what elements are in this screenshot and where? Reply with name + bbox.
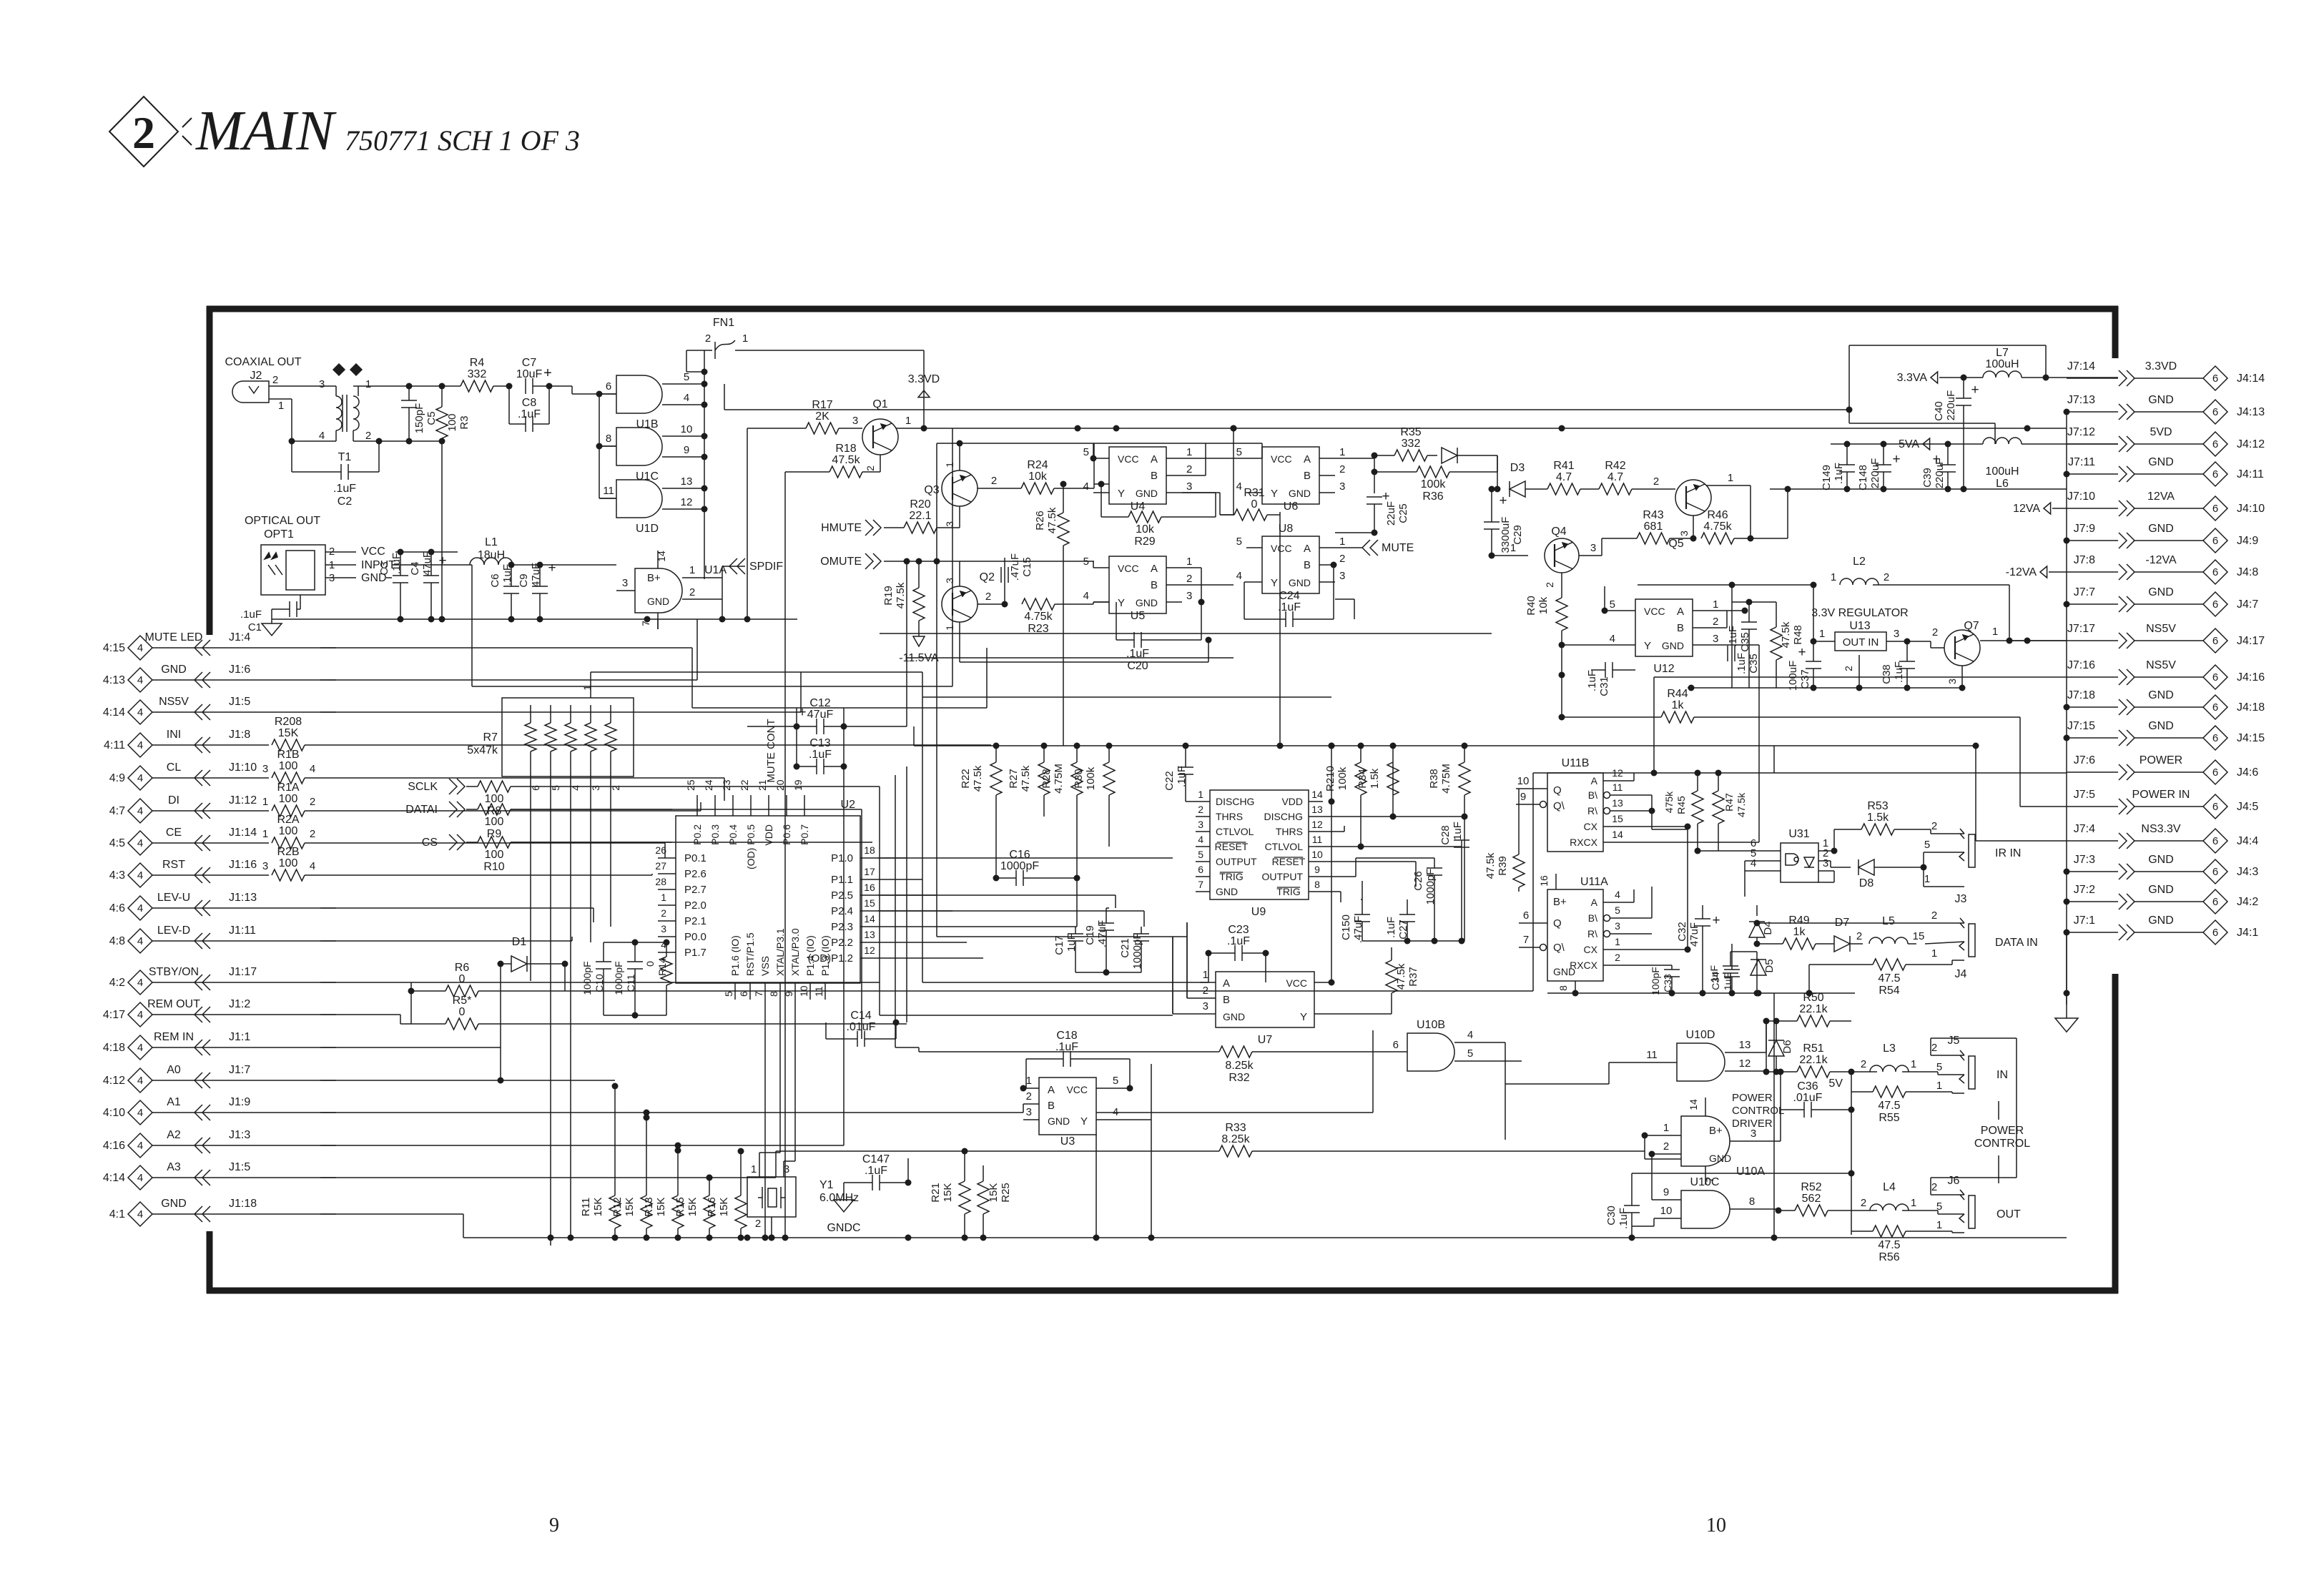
svg-text:R21: R21 [930, 1183, 942, 1203]
svg-text:U8: U8 [1279, 523, 1294, 535]
svg-text:22.1k: 22.1k [1799, 1003, 1828, 1015]
svg-text:2: 2 [985, 591, 991, 603]
svg-text:16: 16 [864, 882, 875, 893]
svg-text:J6: J6 [1948, 1175, 1960, 1187]
svg-text:3: 3 [1590, 542, 1596, 554]
svg-text:GND: GND [1662, 640, 1684, 651]
svg-text:9: 9 [1520, 791, 1526, 803]
svg-text:4: 4 [137, 935, 143, 947]
svg-text:U11B: U11B [1562, 757, 1590, 769]
svg-text:R16: R16 [706, 1197, 718, 1217]
svg-text:7: 7 [1523, 934, 1529, 946]
svg-text:C147: C147 [862, 1153, 890, 1165]
svg-text:2: 2 [1931, 820, 1937, 832]
svg-text:POWER: POWER [1981, 1125, 2024, 1137]
svg-text:5V: 5V [1828, 1078, 1843, 1090]
svg-text:2: 2 [1615, 952, 1620, 963]
svg-text:R45: R45 [1675, 796, 1687, 814]
svg-text:J3: J3 [1955, 893, 1967, 905]
svg-text:10: 10 [1311, 849, 1323, 860]
svg-text:J7:10: J7:10 [2067, 490, 2095, 503]
svg-text:C10: C10 [594, 974, 605, 992]
svg-text:13: 13 [1311, 804, 1323, 815]
svg-text:IR IN: IR IN [1995, 847, 2021, 859]
svg-text:2: 2 [1186, 463, 1192, 475]
svg-text:+: + [1798, 645, 1806, 660]
svg-text:14: 14 [1612, 829, 1623, 840]
svg-text:R7: R7 [483, 731, 498, 744]
svg-text:15K: 15K [278, 727, 299, 739]
svg-text:R10: R10 [483, 861, 504, 873]
svg-text:6: 6 [738, 991, 749, 997]
svg-text:VCC: VCC [1286, 977, 1307, 989]
svg-text:U13: U13 [1849, 620, 1870, 632]
svg-text:J7:4: J7:4 [2074, 823, 2095, 835]
svg-text:2: 2 [610, 785, 621, 791]
svg-text:Q7: Q7 [1964, 620, 1979, 632]
svg-text:1: 1 [1713, 598, 1718, 611]
svg-text:6: 6 [2212, 835, 2218, 847]
svg-text:J1:4: J1:4 [229, 631, 250, 643]
svg-text:J1:18: J1:18 [229, 1198, 257, 1210]
svg-text:C33: C33 [1662, 974, 1673, 992]
svg-text:1: 1 [1510, 542, 1516, 554]
svg-text:.1uF: .1uF [1833, 463, 1845, 484]
svg-text:5: 5 [1236, 536, 1242, 548]
svg-text:THRS: THRS [1216, 811, 1243, 822]
svg-text:R24: R24 [1027, 459, 1048, 471]
svg-text:100k: 100k [1421, 478, 1447, 490]
svg-text:J4:1: J4:1 [2237, 927, 2258, 939]
svg-text:2: 2 [1861, 1197, 1866, 1209]
svg-text:GND: GND [2148, 884, 2174, 896]
svg-text:SPDIF: SPDIF [749, 561, 783, 573]
svg-text:5: 5 [1610, 598, 1615, 611]
svg-text:18: 18 [864, 844, 875, 856]
svg-text:J7:8: J7:8 [2074, 554, 2095, 566]
svg-text:CTLVOL: CTLVOL [1265, 841, 1304, 852]
svg-text:9: 9 [684, 444, 689, 456]
svg-text:J4:16: J4:16 [2237, 671, 2265, 684]
svg-text:2: 2 [1663, 1140, 1669, 1153]
svg-text:R\: R\ [1587, 928, 1597, 940]
svg-text:2: 2 [272, 374, 278, 386]
svg-text:14: 14 [1311, 789, 1323, 800]
svg-text:+: + [1712, 913, 1720, 928]
svg-text:U6: U6 [1284, 500, 1299, 513]
svg-text:100: 100 [485, 849, 504, 861]
svg-text:6.0MHz: 6.0MHz [819, 1192, 859, 1204]
svg-text:6: 6 [2212, 598, 2218, 611]
svg-text:VCC: VCC [1066, 1084, 1088, 1095]
svg-text:B+: B+ [647, 572, 661, 584]
svg-text:4: 4 [319, 430, 325, 442]
svg-text:5: 5 [684, 371, 689, 383]
svg-text:C35: C35 [1739, 632, 1751, 652]
svg-text:1: 1 [944, 462, 955, 468]
svg-text:47uF: 47uF [1688, 922, 1700, 947]
svg-text:VCC: VCC [1271, 543, 1292, 554]
svg-text:1: 1 [751, 1163, 757, 1175]
svg-text:47.5k: 47.5k [895, 582, 907, 608]
svg-text:+: + [1892, 452, 1900, 467]
svg-text:24: 24 [703, 779, 714, 791]
svg-text:J4:8: J4:8 [2237, 566, 2258, 578]
svg-text:12: 12 [1739, 1057, 1751, 1070]
svg-text:D1: D1 [512, 936, 527, 948]
svg-text:GND: GND [1136, 488, 1158, 499]
svg-text:1: 1 [1992, 626, 1998, 638]
svg-text:4.7: 4.7 [1556, 471, 1572, 483]
svg-text:5: 5 [1467, 1047, 1473, 1060]
svg-text:J7:17: J7:17 [2067, 623, 2095, 635]
svg-text:C14: C14 [850, 1010, 871, 1022]
svg-text:-12VA: -12VA [2006, 566, 2037, 578]
svg-text:C27: C27 [1397, 919, 1409, 940]
svg-text:6: 6 [1523, 909, 1529, 922]
svg-text:R56: R56 [1879, 1251, 1899, 1263]
svg-text:1000pF: 1000pF [1424, 869, 1437, 905]
svg-text:R30: R30 [1073, 769, 1085, 789]
svg-text:4: 4 [137, 902, 143, 914]
svg-text:VCC: VCC [1118, 453, 1139, 465]
svg-text:U7: U7 [1258, 1034, 1273, 1046]
svg-text:Y: Y [1644, 640, 1651, 652]
svg-text:NS3.3V: NS3.3V [2141, 823, 2180, 835]
svg-text:11: 11 [1646, 1049, 1658, 1061]
svg-text:VSS: VSS [759, 956, 771, 976]
svg-text:1: 1 [1831, 571, 1836, 583]
svg-text:J7:6: J7:6 [2074, 754, 2095, 766]
svg-text:47.5k: 47.5k [1484, 852, 1497, 879]
svg-text:3: 3 [1198, 819, 1203, 830]
svg-text:GND: GND [1216, 886, 1238, 897]
svg-text:2: 2 [1186, 573, 1192, 585]
svg-text:J1:8: J1:8 [229, 729, 250, 741]
svg-text:C16: C16 [1009, 849, 1030, 861]
svg-text:2: 2 [1026, 1090, 1032, 1103]
svg-text:6: 6 [2212, 671, 2218, 684]
svg-text:6: 6 [1393, 1039, 1399, 1051]
svg-text:6: 6 [2212, 535, 2218, 547]
svg-text:6: 6 [2212, 373, 2218, 385]
svg-text:4:5: 4:5 [109, 837, 125, 849]
svg-text:2: 2 [1339, 553, 1345, 565]
svg-text:3.3VD: 3.3VD [2145, 360, 2177, 373]
svg-text:6: 6 [2212, 406, 2218, 418]
svg-text:5: 5 [1936, 1200, 1942, 1213]
svg-text:100k: 100k [1336, 766, 1349, 790]
svg-text:R48: R48 [1792, 625, 1804, 645]
svg-text:100: 100 [279, 760, 298, 772]
svg-text:8: 8 [606, 433, 611, 445]
svg-text:C21: C21 [1119, 938, 1131, 958]
svg-text:D8: D8 [1859, 877, 1874, 889]
svg-text:5VA: 5VA [1899, 438, 1919, 450]
svg-text:U1D: U1D [636, 523, 659, 535]
svg-text:3: 3 [1823, 857, 1828, 869]
svg-text:.1uF: .1uF [1727, 626, 1739, 647]
svg-text:4: 4 [1198, 834, 1203, 845]
svg-text:2: 2 [661, 907, 666, 919]
svg-text:OUT IN: OUT IN [1843, 636, 1879, 649]
svg-text:4.75M: 4.75M [1440, 764, 1452, 794]
svg-text:100: 100 [279, 857, 298, 869]
svg-text:7: 7 [640, 621, 651, 626]
svg-text:14: 14 [1688, 1099, 1699, 1110]
svg-text:R32: R32 [1229, 1072, 1249, 1084]
svg-text:1.5k: 1.5k [1867, 812, 1889, 824]
svg-text:12: 12 [1612, 767, 1623, 779]
svg-text:4: 4 [137, 837, 143, 849]
svg-text:RXCX: RXCX [1570, 837, 1598, 848]
svg-text:OPT1: OPT1 [264, 528, 294, 541]
svg-text:C11: C11 [625, 974, 636, 992]
svg-text:GND: GND [2148, 523, 2174, 535]
svg-text:C28: C28 [1439, 825, 1452, 845]
svg-text:J4:17: J4:17 [2237, 635, 2265, 647]
svg-text:3.3VA: 3.3VA [1897, 372, 1928, 384]
svg-text:C5: C5 [425, 411, 438, 425]
svg-text:A: A [1677, 606, 1684, 618]
svg-text:23: 23 [721, 779, 732, 791]
svg-text:C2: C2 [338, 495, 353, 508]
svg-text:R1B: R1B [277, 749, 299, 761]
svg-text:4: 4 [137, 739, 143, 751]
svg-text:1: 1 [1198, 789, 1203, 800]
svg-text:4: 4 [310, 860, 315, 872]
svg-text:.1uF: .1uF [1176, 766, 1188, 787]
svg-text:C149: C149 [1821, 465, 1833, 490]
svg-text:CONTROL: CONTROL [1974, 1138, 2030, 1150]
svg-text:T1: T1 [338, 451, 352, 463]
svg-text:1.5k: 1.5k [1369, 768, 1381, 789]
svg-text:15: 15 [1612, 813, 1623, 824]
svg-text:4: 4 [570, 785, 581, 791]
svg-text:C13: C13 [809, 737, 830, 749]
svg-text:.47uF: .47uF [1009, 553, 1021, 581]
svg-text:4:2: 4:2 [109, 977, 125, 989]
svg-text:L2: L2 [1853, 556, 1866, 568]
svg-text:5: 5 [1198, 849, 1203, 860]
svg-text:J1:7: J1:7 [229, 1064, 250, 1076]
svg-text:4: 4 [137, 805, 143, 817]
svg-text:B\: B\ [1588, 912, 1597, 924]
svg-text:3: 3 [1946, 679, 1958, 684]
svg-text:C15: C15 [1021, 557, 1033, 577]
svg-text:OMUTE: OMUTE [820, 556, 862, 568]
svg-text:R46: R46 [1707, 509, 1728, 521]
svg-text:Y1: Y1 [819, 1179, 834, 1191]
svg-text:GND: GND [2148, 394, 2174, 406]
svg-text:C18: C18 [1056, 1030, 1077, 1042]
svg-text:R52: R52 [1801, 1181, 1821, 1193]
svg-text:P2.5: P2.5 [831, 889, 853, 902]
svg-text:6: 6 [2212, 468, 2218, 480]
svg-text:B\: B\ [1588, 789, 1597, 801]
svg-text:C1: C1 [248, 621, 262, 633]
svg-text:U31: U31 [1788, 828, 1809, 840]
svg-text:1: 1 [1339, 536, 1345, 548]
svg-text:.47uF: .47uF [1352, 916, 1364, 943]
svg-text:Y: Y [1300, 1011, 1307, 1023]
svg-text:NS5V: NS5V [159, 696, 189, 708]
svg-text:1: 1 [1924, 873, 1930, 885]
svg-text:150pF: 150pF [413, 403, 425, 434]
svg-text:P1.4 (IO): P1.4 (IO) [804, 935, 816, 976]
svg-text:CONTROL: CONTROL [1732, 1105, 1784, 1117]
svg-text:.1uF: .1uF [865, 1165, 887, 1177]
svg-text:5: 5 [1113, 1075, 1118, 1087]
svg-text:B: B [1223, 994, 1230, 1006]
svg-text:12: 12 [864, 945, 875, 956]
svg-text:8.25k: 8.25k [1225, 1060, 1254, 1072]
svg-text:3: 3 [1203, 1000, 1208, 1012]
svg-text:4:17: 4:17 [103, 1009, 125, 1021]
svg-text:J4:9: J4:9 [2237, 535, 2258, 547]
svg-text:4:10: 4:10 [103, 1107, 125, 1119]
svg-text:A: A [1151, 453, 1158, 465]
svg-text:U10A: U10A [1736, 1165, 1765, 1178]
svg-text:22.1: 22.1 [909, 510, 931, 522]
svg-text:A: A [1591, 775, 1598, 786]
svg-text:DI: DI [168, 794, 179, 807]
svg-text:L5: L5 [1882, 915, 1895, 927]
svg-text:C4: C4 [409, 561, 421, 575]
svg-text:U10D: U10D [1686, 1029, 1715, 1041]
svg-text:4: 4 [1236, 570, 1242, 582]
svg-text:6: 6 [2212, 438, 2218, 450]
svg-text:5: 5 [723, 991, 734, 997]
svg-text:3: 3 [944, 521, 955, 527]
svg-text:J1:13: J1:13 [229, 892, 257, 904]
svg-text:J7:14: J7:14 [2067, 360, 2095, 373]
svg-text:L7: L7 [1996, 347, 2009, 359]
svg-text:.1uF: .1uF [1227, 935, 1250, 947]
svg-text:U5: U5 [1131, 610, 1146, 622]
svg-text:R1A: R1A [277, 781, 299, 794]
svg-text:10: 10 [1660, 1205, 1673, 1217]
svg-text:P2.7: P2.7 [684, 884, 706, 896]
svg-text:681: 681 [1644, 521, 1663, 533]
svg-text:4: 4 [137, 706, 143, 719]
svg-text:1: 1 [1819, 628, 1825, 640]
svg-text:100: 100 [485, 816, 504, 828]
svg-text:3: 3 [262, 860, 268, 872]
svg-text:13: 13 [1739, 1039, 1751, 1051]
svg-text:5: 5 [1236, 446, 1242, 458]
svg-text:B: B [1151, 470, 1158, 482]
svg-text:100uF: 100uF [1787, 661, 1799, 691]
svg-text:6: 6 [606, 380, 611, 393]
svg-text:6: 6 [2212, 566, 2218, 578]
svg-text:2: 2 [1861, 1058, 1866, 1070]
svg-text:R42: R42 [1605, 460, 1625, 472]
svg-text:VDD: VDD [1281, 796, 1303, 807]
svg-text:XTAL/P3.1: XTAL/P3.1 [774, 928, 786, 976]
svg-text:GNDC: GNDC [827, 1222, 860, 1234]
svg-text:R22: R22 [960, 769, 972, 789]
svg-text:4: 4 [1467, 1029, 1473, 1041]
svg-text:5: 5 [1083, 556, 1089, 568]
svg-text:4:1: 4:1 [109, 1208, 125, 1221]
svg-text:A: A [1304, 543, 1311, 555]
svg-text:2: 2 [365, 430, 371, 442]
svg-text:J7:7: J7:7 [2074, 586, 2095, 598]
svg-text:2: 2 [1931, 1181, 1937, 1193]
svg-text:220uF: 220uF [1869, 458, 1881, 489]
svg-text:1: 1 [944, 625, 955, 631]
svg-text:DISCHG: DISCHG [1216, 796, 1254, 807]
svg-text:CX: CX [1584, 944, 1598, 955]
svg-text:4: 4 [137, 1140, 143, 1152]
svg-text:GND: GND [2148, 689, 2174, 701]
svg-text:100: 100 [446, 413, 458, 431]
svg-text:R5*: R5* [453, 995, 472, 1007]
svg-text:47.5k: 47.5k [832, 454, 860, 466]
svg-text:100uH: 100uH [1985, 358, 2019, 370]
svg-text:2: 2 [1931, 1042, 1937, 1054]
svg-text:15K: 15K [942, 1183, 954, 1203]
svg-text:3: 3 [1186, 590, 1192, 602]
svg-text:1000pF: 1000pF [613, 961, 624, 995]
svg-text:J1:17: J1:17 [229, 966, 257, 978]
svg-text:13: 13 [1612, 797, 1623, 809]
svg-text:R33: R33 [1225, 1122, 1246, 1134]
svg-text:2: 2 [1653, 475, 1659, 488]
svg-text:R20: R20 [910, 498, 930, 511]
svg-text:.1uF: .1uF [240, 608, 262, 621]
svg-text:220uF: 220uF [1945, 390, 1957, 421]
svg-text:17: 17 [864, 866, 875, 877]
svg-text:.1uF: .1uF [1586, 670, 1598, 691]
svg-text:A: A [1304, 453, 1311, 465]
svg-text:R39: R39 [1497, 856, 1509, 876]
svg-text:47uF: 47uF [807, 709, 834, 721]
svg-text:3: 3 [1894, 628, 1899, 640]
svg-text:Q5: Q5 [1668, 538, 1683, 550]
svg-text:2: 2 [1884, 571, 1889, 583]
svg-text:12: 12 [1311, 819, 1323, 830]
svg-text:4.75M: 4.75M [1053, 764, 1065, 794]
svg-text:J7:2: J7:2 [2074, 884, 2095, 896]
svg-text:INI: INI [167, 729, 181, 741]
svg-text:8.25k: 8.25k [1221, 1133, 1250, 1145]
svg-text:2: 2 [1339, 463, 1345, 475]
svg-text:R2B: R2B [277, 846, 299, 858]
svg-text:GND: GND [1289, 577, 1311, 588]
svg-text:R38: R38 [1428, 769, 1440, 789]
svg-text:12VA: 12VA [2013, 503, 2040, 515]
svg-text:R3: R3 [458, 415, 471, 429]
svg-text:J7:18: J7:18 [2067, 689, 2095, 701]
svg-text:+: + [543, 365, 552, 381]
svg-text:J1:11: J1:11 [229, 924, 256, 937]
svg-text:12VA: 12VA [2147, 490, 2175, 503]
svg-text:(OD) P0.5: (OD) P0.5 [745, 824, 757, 869]
svg-text:6: 6 [2212, 503, 2218, 515]
svg-text:-12VA: -12VA [2145, 554, 2177, 566]
svg-text:L1: L1 [485, 536, 498, 548]
svg-text:4:16: 4:16 [103, 1140, 125, 1152]
svg-text:6: 6 [2212, 896, 2218, 908]
svg-text:R29: R29 [1134, 536, 1155, 548]
svg-text:4: 4 [684, 392, 689, 404]
svg-text:MUTE LED: MUTE LED [145, 631, 203, 643]
svg-text:1000pF: 1000pF [1131, 933, 1143, 970]
svg-text:2: 2 [1932, 626, 1938, 638]
svg-text:1: 1 [1931, 947, 1937, 960]
